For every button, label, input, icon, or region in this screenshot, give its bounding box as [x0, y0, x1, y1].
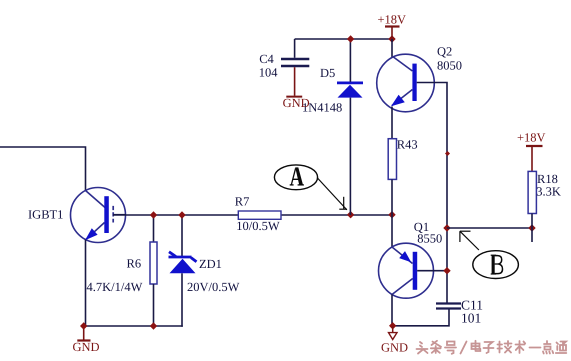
power +18V top [378, 13, 407, 40]
wire C4 top stem [294, 39, 296, 58]
power +18V right [517, 131, 546, 172]
wire R43 bottom stem [391, 179, 393, 215]
svg-text:3.3K: 3.3K [536, 185, 561, 199]
svg-text:GND: GND [283, 96, 310, 110]
wire R6 bottom stem [153, 284, 155, 326]
junction node A [347, 211, 354, 218]
ground under Q1 [381, 326, 408, 355]
wire Q1 emitter stem [391, 215, 393, 248]
svg-text:20V/0.5W: 20V/0.5W [187, 280, 240, 294]
wire D5 cathode up to top rail [349, 39, 351, 82]
wire Q1 collector down [391, 294, 393, 326]
svg-text:GND: GND [381, 341, 408, 355]
svg-text:R7: R7 [235, 194, 250, 208]
junction R43 bottom [388, 211, 395, 218]
svg-text:4.7K/1/4W: 4.7K/1/4W [87, 280, 143, 294]
wire top rail [295, 38, 392, 40]
svg-text:101: 101 [461, 311, 481, 326]
resistor R43 [388, 139, 396, 180]
svg-text:GND: GND [73, 340, 100, 354]
arrow from node B to rail [460, 231, 479, 250]
capacitor C4 [281, 59, 309, 66]
junction Q1 base [443, 267, 450, 274]
wire Q1 base [417, 270, 447, 272]
wire from left edge to IGBT1 collector [0, 147, 86, 191]
wire bottom rail [84, 325, 183, 327]
transistor Q1 [379, 243, 434, 298]
wire R7 to node A junction [282, 214, 392, 216]
wire IGBT1 emitter down [85, 240, 87, 327]
svg-text:IGBT1: IGBT1 [28, 208, 63, 222]
junction D5 top [347, 35, 354, 42]
junction +18V / Q2 collector [388, 35, 395, 42]
wire ZD1 top stem [181, 215, 183, 256]
svg-text:104: 104 [259, 65, 279, 79]
wire C4 bottom to GND [294, 67, 296, 96]
wire Q2 base down to C11 [417, 83, 447, 304]
svg-text:+18V: +18V [517, 131, 546, 145]
watermark 头条号 / 电子技术一点通 [417, 341, 567, 354]
svg-text:Q2: Q2 [437, 45, 452, 59]
junction ZD1 top [178, 211, 185, 218]
wire R18 bottom stub [531, 214, 533, 243]
junction B rail left [443, 224, 450, 231]
svg-text:C4: C4 [259, 52, 274, 66]
zener diode ZD1 [169, 252, 197, 273]
junction small on base line [445, 151, 450, 156]
svg-text:8050: 8050 [437, 59, 462, 73]
resistor R6 [150, 242, 157, 284]
junction B rail right [528, 224, 535, 231]
wire R6 top stem [153, 215, 155, 242]
wire Q2 emitter to R43 [391, 107, 393, 139]
arrow from node A to junction [317, 178, 347, 210]
transistor Q2 [377, 54, 435, 112]
wire ZD1 bottom stem [181, 273, 183, 327]
ground bottom-left [73, 326, 100, 354]
svg-text:10/0.5W: 10/0.5W [236, 219, 280, 233]
svg-text:D5: D5 [320, 66, 335, 80]
wire bottom right rail to C11 [392, 309, 449, 326]
wire Q2 collector stem [391, 39, 393, 58]
svg-text:R43: R43 [397, 138, 418, 152]
junction IGBT emitter / bottom rail [80, 322, 87, 329]
svg-text:+18V: +18V [378, 13, 407, 27]
transistor IGBT1 [71, 188, 127, 243]
resistor R7 [238, 211, 281, 219]
svg-text:R6: R6 [127, 257, 142, 271]
junction R6 bottom [150, 322, 157, 329]
svg-text:ZD1: ZD1 [199, 257, 222, 271]
junction R6 top [150, 211, 157, 218]
diode D5 [337, 83, 363, 98]
svg-text:8550: 8550 [417, 232, 442, 246]
capacitor C11 [436, 304, 461, 309]
junction Q1 collector / C11 / GND [389, 322, 396, 329]
resistor R18 [528, 171, 536, 213]
node B [473, 251, 519, 279]
wire D5 anode down to node A [349, 98, 351, 215]
wire B rail [447, 227, 532, 229]
wire gate rail [113, 214, 238, 216]
node A [274, 165, 317, 190]
